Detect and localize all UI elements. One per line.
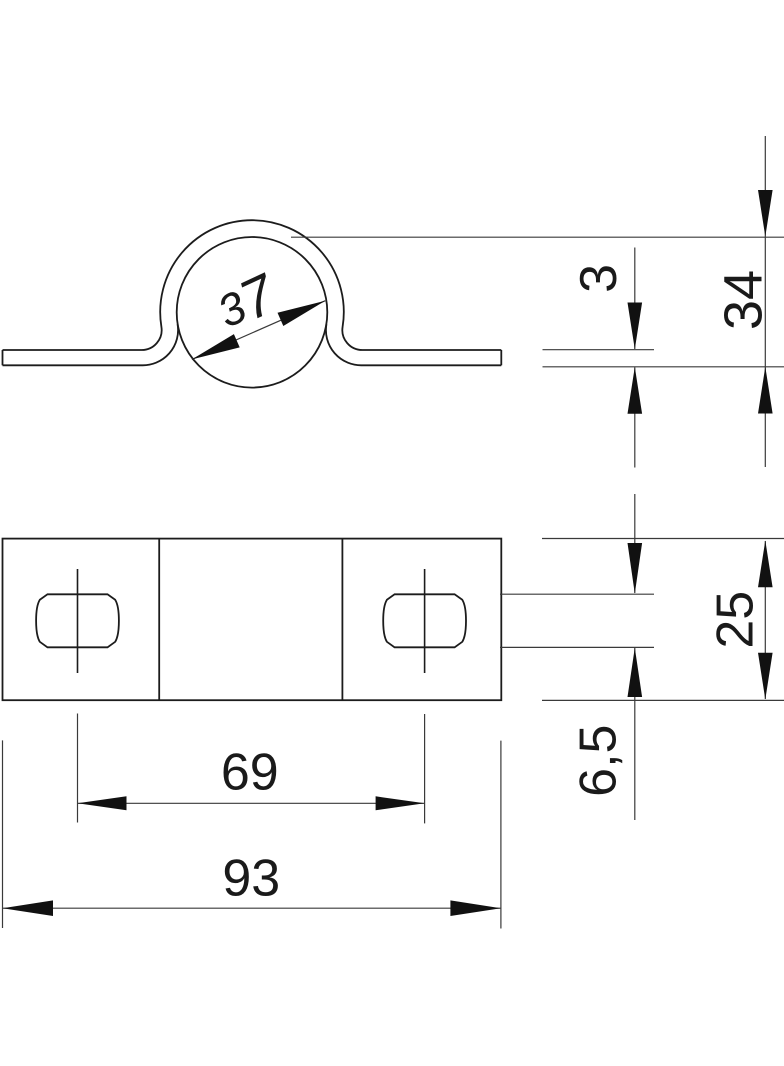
svg-text:6,5: 6,5	[570, 725, 628, 797]
svg-text:69: 69	[221, 743, 279, 801]
svg-text:3: 3	[570, 264, 628, 293]
svg-text:93: 93	[222, 850, 280, 908]
svg-text:25: 25	[707, 591, 765, 649]
svg-text:34: 34	[714, 270, 774, 330]
